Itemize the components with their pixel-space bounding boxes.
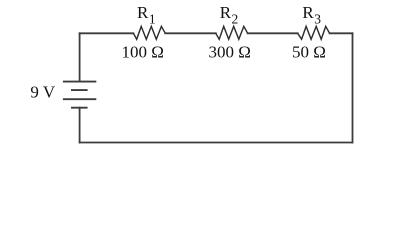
svg-text:R1: R1 — [137, 3, 156, 27]
svg-text:100 Ω: 100 Ω — [122, 42, 164, 61]
wire top-right segment — [330, 32, 353, 34]
resistor R1 zigzag — [133, 26, 165, 39]
resistor R2 zigzag — [216, 26, 248, 39]
svg-text:300 Ω: 300 Ω — [209, 42, 251, 61]
wire left upper (top to battery) — [79, 33, 81, 81]
wire left lower (battery to bottom) — [79, 108, 81, 143]
battery long plate 3 — [63, 98, 96, 100]
wire between R2 and R3 — [248, 32, 298, 34]
wire between R1 and R2 — [165, 32, 216, 34]
wire top-left segment — [80, 32, 134, 34]
wire bottom — [80, 142, 353, 144]
battery short plate 2 — [71, 89, 88, 91]
svg-text:9 V: 9 V — [30, 82, 55, 101]
svg-text:50 Ω: 50 Ω — [292, 42, 326, 61]
battery V1 (9 V source) — [63, 82, 96, 108]
svg-text:R3: R3 — [302, 3, 321, 27]
resistor R3 zigzag — [298, 26, 330, 39]
svg-text:R2: R2 — [220, 3, 239, 27]
battery long plate 1 — [63, 81, 96, 83]
wire right side — [352, 33, 354, 142]
battery short plate 4 — [71, 107, 88, 109]
